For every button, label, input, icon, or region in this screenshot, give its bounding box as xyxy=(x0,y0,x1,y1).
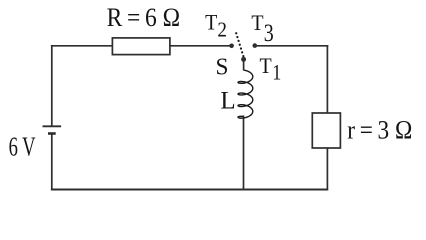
wire top-right segment xyxy=(255,45,328,47)
switch terminal dot T3 xyxy=(253,43,258,48)
svg-text:6 V: 6 V xyxy=(9,132,36,162)
wire left lower xyxy=(51,134,53,191)
svg-text:r = 3 Ω: r = 3 Ω xyxy=(347,115,412,144)
svg-text:1: 1 xyxy=(272,60,281,85)
wire inductor stub bottom xyxy=(243,116,245,191)
wire inductor stub top xyxy=(243,59,245,70)
switch terminal dot T2 xyxy=(229,44,234,49)
svg-text:R = 6 Ω: R = 6 Ω xyxy=(107,3,181,32)
svg-text:3: 3 xyxy=(264,20,274,47)
switch blade S dotted xyxy=(236,33,243,56)
svg-text:S: S xyxy=(216,54,229,81)
inductor L coil xyxy=(238,70,253,118)
svg-text:T: T xyxy=(251,10,264,35)
switch pivot dot T1 xyxy=(241,57,246,62)
wire right xyxy=(326,45,328,190)
wire left upper xyxy=(51,45,53,126)
svg-text:T: T xyxy=(205,9,218,34)
battery B1 short plate xyxy=(48,132,56,135)
wire top-left segment xyxy=(51,45,232,47)
wire bottom xyxy=(51,189,328,191)
svg-text:2: 2 xyxy=(217,17,227,41)
resistor r box xyxy=(312,113,340,148)
svg-text:L: L xyxy=(220,88,235,115)
svg-text:T: T xyxy=(260,53,273,78)
resistor R box xyxy=(112,38,169,55)
battery B1 long plate xyxy=(43,125,62,127)
